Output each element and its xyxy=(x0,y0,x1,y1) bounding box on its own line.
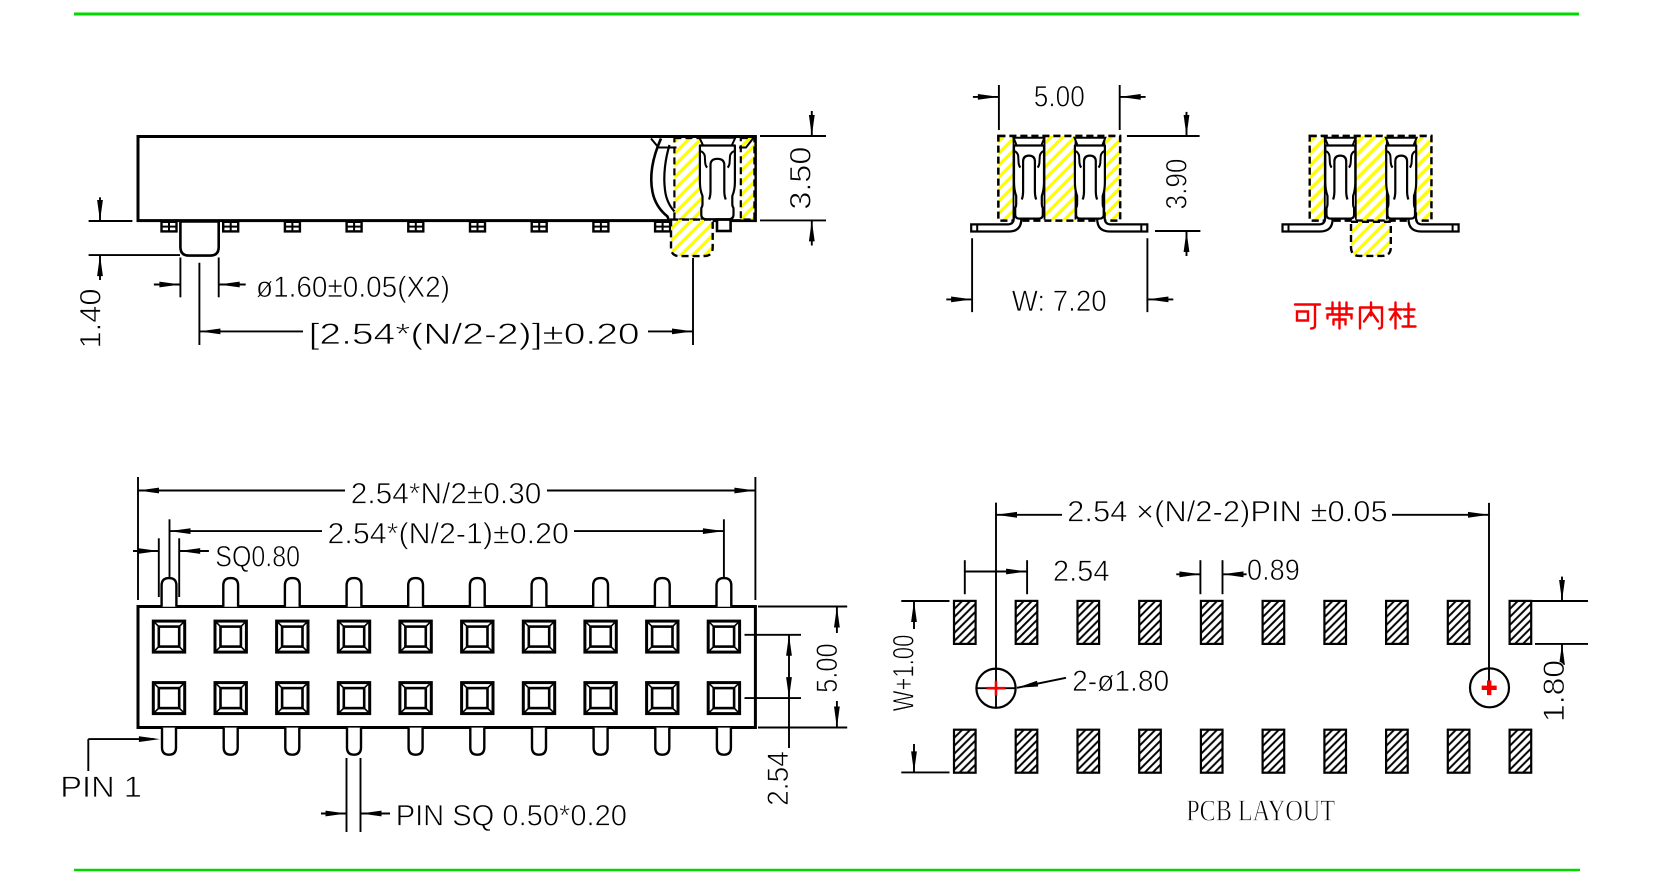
svg-text:PCB LAYOUT: PCB LAYOUT xyxy=(1186,793,1335,828)
svg-text:2.54*(N/2-1)±0.20: 2.54*(N/2-1)±0.20 xyxy=(328,518,569,551)
svg-text:5.00: 5.00 xyxy=(1034,81,1085,114)
svg-text:W: 7.20: W: 7.20 xyxy=(1012,285,1107,318)
svg-text:1.40: 1.40 xyxy=(75,289,108,349)
svg-text:2.54: 2.54 xyxy=(762,751,795,806)
svg-text:2.54: 2.54 xyxy=(1053,555,1110,588)
svg-text:2.54 ×(N/2-2)PIN ±0.05: 2.54 ×(N/2-2)PIN ±0.05 xyxy=(1067,496,1388,529)
svg-text:1.80: 1.80 xyxy=(1538,660,1571,722)
svg-text:2-ø1.80: 2-ø1.80 xyxy=(1072,665,1169,698)
svg-text:W+1.00: W+1.00 xyxy=(887,635,920,712)
svg-text:ø1.60±0.05(X2): ø1.60±0.05(X2) xyxy=(256,271,450,304)
svg-text:[2.54*(N/2-2)]±0.20: [2.54*(N/2-2)]±0.20 xyxy=(309,318,640,351)
svg-text:3.50: 3.50 xyxy=(785,147,818,210)
svg-text:PIN SQ 0.50*0.20: PIN SQ 0.50*0.20 xyxy=(396,799,627,832)
svg-text:2.54*N/2±0.30: 2.54*N/2±0.30 xyxy=(351,478,542,511)
svg-text:PIN 1: PIN 1 xyxy=(60,771,142,804)
svg-text:0.89: 0.89 xyxy=(1247,554,1300,587)
svg-text:SQ0.80: SQ0.80 xyxy=(215,541,300,574)
svg-text:3.90: 3.90 xyxy=(1161,159,1194,210)
svg-text:5.00: 5.00 xyxy=(811,643,844,693)
